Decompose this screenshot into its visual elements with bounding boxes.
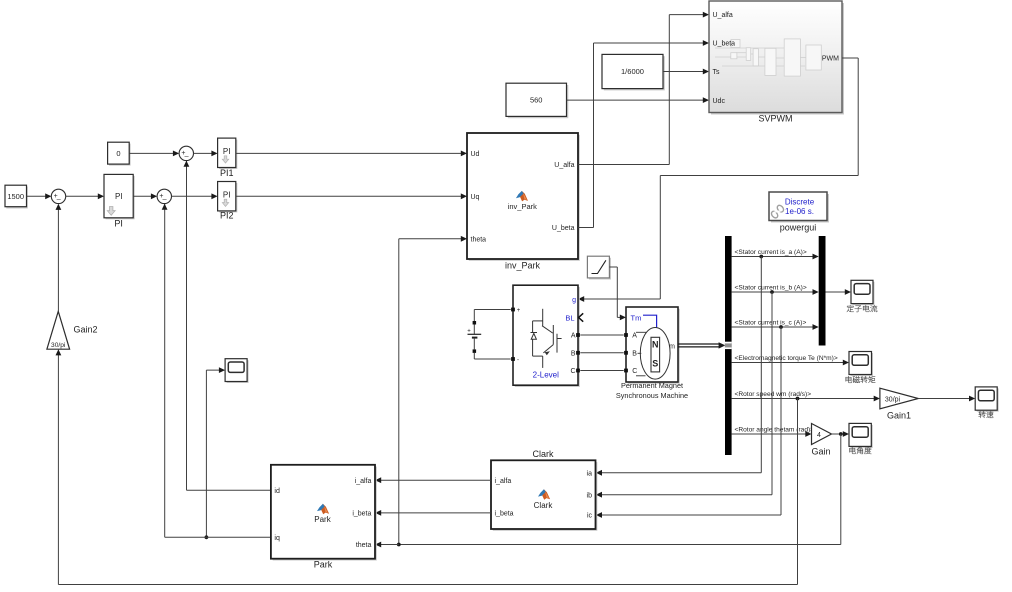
svg-text:ib: ib bbox=[587, 492, 593, 499]
wire Gain1 to scope 转速 bbox=[918, 396, 975, 402]
svg-text:iq: iq bbox=[274, 535, 280, 542]
svg-text:C: C bbox=[570, 368, 575, 375]
svg-text:Gain2: Gain2 bbox=[74, 325, 98, 335]
svg-text:1500: 1500 bbox=[7, 192, 24, 201]
svg-text:2-Level: 2-Level bbox=[533, 371, 559, 380]
subsystem inv_Park bbox=[467, 133, 580, 271]
subsystem Park bbox=[271, 465, 377, 570]
wire 0 to Sum3 bbox=[129, 151, 179, 157]
svg-text:powergui: powergui bbox=[780, 223, 817, 233]
subsystem SVPWM (with content preview) bbox=[709, 1, 844, 124]
svg-text:U_alfa: U_alfa bbox=[554, 162, 574, 169]
svg-text:1e-06 s.: 1e-06 s. bbox=[785, 207, 814, 216]
signal stator current is_c bbox=[732, 320, 819, 330]
svg-text:theta: theta bbox=[471, 236, 487, 243]
svg-text:Clark: Clark bbox=[534, 501, 554, 510]
svg-text:Synchronous Machine: Synchronous Machine bbox=[616, 391, 688, 400]
wire 560 to SVPWM Udc bbox=[567, 97, 710, 103]
svg-text:Uq: Uq bbox=[471, 194, 480, 201]
signal electromagnetic torque bbox=[732, 355, 849, 365]
svg-text:SVPWM: SVPWM bbox=[758, 114, 792, 124]
svg-text:i_beta: i_beta bbox=[352, 511, 371, 518]
wire ramp to PMSM Tm bbox=[609, 267, 626, 320]
svg-text:i_alfa: i_alfa bbox=[355, 478, 372, 485]
svg-text:inv_Park: inv_Park bbox=[505, 261, 541, 271]
wire Clark i_beta to Park bbox=[375, 510, 491, 516]
wire theta to inv_Park bbox=[399, 236, 467, 545]
svg-text:0: 0 bbox=[116, 149, 120, 158]
gain Gain2 (30/pi, pointing up) bbox=[47, 311, 98, 349]
wire PI output to Sum2 bbox=[133, 193, 157, 199]
PI controller block PI1 bbox=[218, 138, 238, 178]
bus selector bar bbox=[725, 236, 732, 455]
svg-text:_: _ bbox=[184, 150, 189, 157]
svg-text:ic: ic bbox=[587, 513, 593, 520]
DC voltage source (battery) bbox=[467, 310, 510, 360]
svg-text:Clark: Clark bbox=[532, 449, 554, 459]
svg-text:U_beta: U_beta bbox=[713, 41, 736, 48]
wire id feedback from Park up to Sum3 bbox=[184, 161, 272, 491]
svg-text:ia: ia bbox=[587, 471, 593, 478]
svg-text:U_beta: U_beta bbox=[552, 225, 575, 232]
svg-text:PI: PI bbox=[115, 192, 123, 201]
constant block 1500 bbox=[5, 185, 28, 208]
wire 1500 to Sum1 bbox=[27, 193, 52, 199]
svg-text:Park: Park bbox=[314, 560, 333, 570]
wire phase A converter to PMSM bbox=[580, 334, 623, 336]
signal stator current is_a bbox=[732, 249, 819, 259]
gain Gain1 (30/pi) bbox=[880, 388, 918, 420]
measurement bus m from PMSM to Bus Selector (double line) bbox=[678, 342, 725, 348]
PI controller block PI2 bbox=[218, 182, 238, 221]
svg-text:Discrete: Discrete bbox=[785, 198, 815, 207]
subsystem Clark bbox=[491, 449, 597, 531]
scope 定子电流 (stator current) bbox=[847, 280, 877, 312]
wire iq feedback from Park up to Sum2 bbox=[162, 204, 271, 538]
svg-text:Gain1: Gain1 bbox=[887, 410, 911, 420]
svg-text:m: m bbox=[669, 344, 675, 351]
svg-text:<Stator current is_c (A)>: <Stator current is_c (A)> bbox=[735, 320, 807, 327]
wire iq branch to scope bbox=[205, 367, 226, 539]
wire Gain to scope 电角度 and theta branch bbox=[832, 431, 850, 437]
svg-text:PI1: PI1 bbox=[220, 168, 234, 178]
svg-text:-: - bbox=[517, 358, 519, 364]
IGBT and diode icon inside 2-Level bbox=[531, 309, 562, 368]
svg-text:Tm: Tm bbox=[631, 314, 642, 323]
svg-text:Park: Park bbox=[314, 515, 331, 524]
scope (iq monitor, unnamed) bbox=[225, 359, 249, 383]
ramp source block (load torque) bbox=[587, 256, 611, 279]
svg-text:i_alfa: i_alfa bbox=[495, 478, 512, 485]
svg-text:PI: PI bbox=[223, 147, 231, 156]
svg-text:<Stator current is_a (A)>: <Stator current is_a (A)> bbox=[735, 249, 807, 256]
svg-text:4: 4 bbox=[817, 432, 821, 439]
svg-text:B: B bbox=[632, 351, 637, 358]
svg-text:Gain: Gain bbox=[811, 447, 830, 457]
svg-text:PI: PI bbox=[114, 219, 123, 229]
svg-text:U_alfa: U_alfa bbox=[713, 12, 733, 19]
svg-text:BL: BL bbox=[565, 313, 574, 322]
svg-text:30/pi: 30/pi bbox=[885, 397, 901, 404]
svg-text:Permanent Magnet: Permanent Magnet bbox=[621, 381, 683, 390]
scope 转速 (speed) bbox=[975, 387, 999, 418]
signal rotor speed wm bbox=[732, 391, 880, 401]
svg-text:Udc: Udc bbox=[713, 98, 726, 105]
svg-text:S: S bbox=[652, 358, 658, 368]
svg-text:N: N bbox=[652, 339, 659, 349]
wire U_beta to SVPWM bbox=[578, 40, 709, 227]
sum Sum2 (iq loop) bbox=[157, 189, 171, 203]
wire 1/6000 to SVPWM Ts bbox=[663, 69, 709, 75]
svg-text:C: C bbox=[632, 368, 637, 375]
wire PI2 to inv_Park Uq bbox=[236, 193, 467, 199]
wire theta feedback (Gain branch down to Park/inv_Park) bbox=[375, 434, 841, 547]
svg-text:<Electromagnetic torque Te (N*: <Electromagnetic torque Te (N*m)> bbox=[735, 355, 838, 362]
wire ib feedback to Clark bbox=[596, 292, 772, 498]
svg-text:+: + bbox=[517, 308, 521, 314]
svg-text:560: 560 bbox=[530, 96, 543, 105]
wire Sum1 to PI bbox=[66, 193, 104, 199]
signal stator current is_b bbox=[732, 285, 819, 295]
wire phase C converter to PMSM bbox=[580, 370, 623, 372]
wire Sum3 to PI1 bbox=[194, 151, 218, 157]
svg-text:PWM: PWM bbox=[822, 56, 839, 63]
svg-text:<Rotor speed wm (rad/s)>: <Rotor speed wm (rad/s)> bbox=[735, 391, 812, 398]
machine PMSM (Permanent Magnet Synchronous Machine) bbox=[616, 307, 688, 400]
svg-text:B: B bbox=[571, 351, 576, 358]
svg-text:PI: PI bbox=[223, 190, 231, 199]
svg-text:A: A bbox=[571, 333, 576, 340]
mux bar (currents) bbox=[819, 236, 826, 346]
wire Sum2 to PI2 bbox=[172, 193, 218, 199]
scope 电磁转矩 (torque) bbox=[846, 352, 876, 384]
constant block 1/6000 bbox=[602, 54, 665, 90]
svg-text:g: g bbox=[572, 297, 576, 304]
constant block 0 bbox=[108, 142, 131, 165]
svg-text:Ts: Ts bbox=[713, 69, 721, 76]
svg-text:Ud: Ud bbox=[471, 151, 480, 158]
scope 电角度 (electrical angle) bbox=[849, 423, 873, 454]
svg-text:+: + bbox=[467, 328, 471, 334]
svg-text:_: _ bbox=[56, 193, 61, 200]
wire phase B converter to PMSM bbox=[580, 352, 623, 354]
constant block 560 bbox=[506, 83, 568, 118]
svg-text:<Rotor angle thetam (rad)>: <Rotor angle thetam (rad)> bbox=[735, 427, 815, 434]
wire rotor speed feedback to Gain2 bbox=[56, 349, 798, 584]
gain Gain (4, pole pairs) bbox=[811, 424, 831, 457]
svg-text:<Stator current is_b (A)>: <Stator current is_b (A)> bbox=[735, 285, 807, 292]
wire ic feedback to Clark bbox=[596, 327, 781, 518]
svg-text:i_beta: i_beta bbox=[495, 511, 514, 518]
svg-text:A: A bbox=[632, 333, 637, 340]
converter 2-Level (Universal Bridge) bbox=[511, 285, 583, 387]
svg-text:theta: theta bbox=[356, 542, 372, 549]
wire Gain2 apex up to Sum1 minus input bbox=[56, 204, 62, 312]
svg-text:30/pi: 30/pi bbox=[51, 342, 66, 349]
svg-text:_: _ bbox=[162, 193, 167, 200]
PI controller block PI (speed) bbox=[104, 174, 135, 228]
wire PI1 to inv_Park Ud bbox=[236, 151, 467, 157]
wire U_alfa to SVPWM bbox=[578, 12, 709, 165]
svg-text:id: id bbox=[274, 488, 280, 495]
svg-text:PI2: PI2 bbox=[220, 211, 234, 221]
wire Clark i_alfa to Park bbox=[375, 477, 491, 483]
signal rotor angle thetam bbox=[732, 427, 815, 437]
svg-text:1/6000: 1/6000 bbox=[621, 67, 644, 76]
sum Sum1 bbox=[51, 189, 65, 203]
powergui block bbox=[769, 192, 829, 233]
wire PWM output loop to 2-Level g input bbox=[578, 58, 858, 302]
wire mux to scope stator current bbox=[826, 289, 852, 295]
sum Sum3 (id loop) bbox=[179, 146, 193, 160]
svg-text:inv_Park: inv_Park bbox=[508, 202, 537, 211]
wire ia feedback to Clark bbox=[596, 257, 762, 476]
